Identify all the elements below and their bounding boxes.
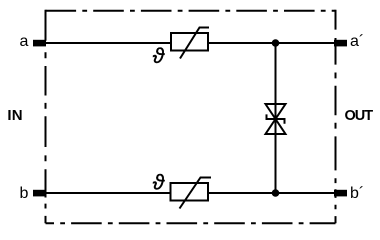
boundary bottom edge (46, 222, 336, 224)
enclosure dashed boundary (46, 10, 336, 224)
suppressor diode V1 (bidirectional) (266, 104, 286, 134)
wire b-b' (40, 192, 340, 194)
junction node b (272, 189, 280, 197)
terminal b (33, 190, 46, 197)
thermistor RT1 (153, 28, 209, 69)
boundary left edge (45, 10, 47, 224)
svg-text:b: b (20, 185, 29, 202)
svg-text:b´: b´ (350, 185, 364, 202)
svg-text:OUT: OUT (345, 108, 374, 124)
svg-text:a´: a´ (350, 33, 364, 50)
svg-text:a: a (20, 33, 29, 50)
boundary top edge (46, 10, 336, 12)
wire a-a' (40, 42, 340, 44)
svg-text:IN: IN (7, 107, 22, 124)
boundary right edge (335, 10, 337, 224)
thermistor RT2 (153, 172, 211, 209)
svg-text:ϑ: ϑ (153, 45, 166, 68)
terminal b' (334, 190, 347, 197)
terminal a' (334, 40, 347, 47)
terminal a (33, 40, 46, 47)
junction node a (272, 39, 280, 47)
wire vertical link (275, 43, 277, 193)
svg-text:ϑ: ϑ (153, 172, 166, 195)
